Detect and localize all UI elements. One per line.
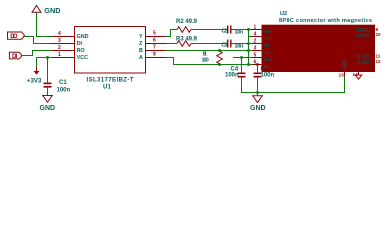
svg-text:12: 12 (376, 59, 382, 64)
wire Y to R2 (166, 30, 177, 37)
svg-text:13: 13 (339, 73, 345, 78)
wire R3 to C3 (191, 43, 227, 45)
capacitor C4 (225, 66, 246, 78)
capacitor C1 (44, 80, 71, 94)
capacitor C3 (222, 40, 244, 50)
node DO (flag label) (8, 32, 25, 40)
svg-text:100n: 100n (225, 72, 239, 78)
svg-text:RD+: RD+ (264, 50, 274, 55)
svg-text:11: 11 (376, 54, 381, 59)
pin 8 A (139, 52, 166, 62)
wire VCC rail (37, 57, 52, 59)
wire junction to C1 (47, 58, 49, 83)
svg-text:RO: RO (77, 48, 85, 54)
svg-text:100: 100 (202, 58, 209, 64)
wire C5 to rail (257, 77, 259, 92)
svg-text:TD+: TD+ (264, 29, 273, 34)
node C5 top junction (256, 63, 259, 66)
pin 4 GND (52, 31, 89, 40)
supply +3V3 (27, 67, 42, 85)
node DI (flag label) (9, 52, 22, 60)
svg-text:DI: DI (77, 41, 83, 47)
wire +3V3 stem (36, 58, 38, 67)
svg-text:R2 49.9: R2 49.9 (176, 19, 198, 25)
wire C5 top (257, 65, 259, 73)
svg-text:1: 1 (58, 52, 61, 58)
svg-text:14: 14 (353, 72, 359, 77)
svg-text:GND: GND (40, 105, 56, 112)
wire C1 to ground (47, 87, 49, 95)
pin 3 DI (52, 38, 83, 47)
svg-text:GND: GND (250, 105, 266, 112)
ground GND (top-left supply symbol) (32, 5, 61, 15)
svg-text:10n: 10n (235, 30, 244, 36)
svg-text:C1: C1 (59, 80, 67, 86)
svg-text:8P8C connector with magnetics: 8P8C connector with magnetics (279, 18, 372, 24)
node R1 bottom junction (218, 63, 221, 66)
node tie at pin6 rail (247, 63, 250, 66)
node rail junction (256, 91, 259, 94)
ground below C1 (40, 96, 56, 113)
pin 5 Y (139, 31, 166, 41)
resistor R1 100 (202, 51, 223, 65)
svg-text:100n: 100n (261, 72, 275, 78)
wire C2 to U2 pin 1 (232, 29, 253, 31)
svg-text:ISL3177EIBZ-T: ISL3177EIBZ-T (87, 76, 134, 83)
pin 2 RO (52, 45, 85, 54)
ground mini GND at U2 shield (355, 75, 361, 79)
wire C4 top lead (241, 58, 243, 73)
svg-text:5: 5 (254, 53, 257, 59)
pin 9 GRNC (356, 27, 379, 34)
svg-text:8: 8 (153, 52, 156, 58)
svg-text:RCT: RCT (264, 57, 274, 62)
wire A to U2 pin 6 rail (166, 58, 252, 65)
pin 13 SHLD (bottom) (339, 59, 349, 78)
svg-text:GND: GND (343, 59, 349, 71)
svg-text:Z: Z (139, 41, 143, 47)
capacitor C5 (254, 66, 275, 78)
svg-text:TCT: TCT (264, 36, 273, 41)
svg-text:VCC: VCC (77, 55, 88, 61)
svg-text:+3V3: +3V3 (27, 78, 42, 85)
pin 7 B (139, 45, 166, 55)
svg-text:GND: GND (44, 6, 60, 15)
svg-text:3: 3 (254, 46, 257, 52)
svg-text:C2: C2 (222, 29, 228, 35)
pin 5 RCT (252, 53, 273, 62)
pin 10 GRNA (356, 32, 382, 39)
svg-text:GND: GND (77, 34, 89, 40)
svg-text:Y: Y (139, 34, 143, 40)
svg-text:GRNA: GRNA (356, 33, 371, 39)
svg-text:100n: 100n (57, 88, 71, 94)
wire R2 to C2 (191, 29, 227, 31)
node VCC junction (46, 56, 49, 59)
svg-text:2: 2 (254, 39, 257, 45)
svg-text:1: 1 (254, 25, 257, 31)
svg-text:2: 2 (58, 45, 61, 51)
svg-text:A: A (139, 55, 143, 61)
svg-text:6: 6 (153, 38, 156, 44)
svg-text:5: 5 (153, 31, 156, 37)
svg-text:3: 3 (58, 38, 61, 44)
svg-text:DI: DI (12, 53, 17, 60)
node C4 top junction (240, 56, 243, 59)
node tie at pin1 row (247, 28, 250, 31)
node tie at pin3 row (247, 49, 250, 52)
wire B to U2 pin 3 (166, 50, 252, 52)
capacitor C2 (222, 26, 244, 36)
IC U1 ISL3177EIBZ-T (RS-485 transceiver) (75, 27, 146, 91)
wire tie to pin 4 (249, 36, 253, 38)
wire DI to U1 RO (22, 51, 51, 56)
svg-text:DO: DO (10, 33, 18, 40)
svg-text:4: 4 (254, 32, 257, 38)
pin 6 RD- (252, 60, 272, 69)
wire ground rail C4/C5 (242, 77, 345, 93)
wire Z to R3 (166, 43, 177, 45)
pin 3 RD+ (252, 46, 273, 55)
svg-text:10n: 10n (235, 44, 244, 50)
svg-text:7: 7 (153, 45, 156, 51)
pin 2 TD- (252, 39, 272, 48)
svg-text:R3 49.9: R3 49.9 (176, 36, 198, 42)
pin 4 TCT (252, 32, 273, 41)
wire DO to U1 DI (25, 37, 52, 44)
pin 14 shield GND (bottom) (353, 72, 359, 77)
svg-text:U2: U2 (280, 11, 287, 17)
svg-text:B: B (139, 48, 143, 54)
connector U2 8P8C with magnetics (262, 11, 375, 72)
svg-text:4: 4 (58, 31, 61, 37)
svg-text:C3: C3 (222, 43, 228, 49)
wire rail to GND (257, 93, 259, 96)
svg-text:6: 6 (254, 60, 257, 66)
svg-text:10: 10 (376, 32, 382, 37)
pin 1 TD+ (252, 25, 273, 34)
wire GND symbol to U1 pin 4 (37, 13, 52, 37)
wire U2 tie column (vertical) (248, 30, 250, 65)
svg-text:TD-: TD- (264, 43, 272, 48)
svg-text:R1: R1 (203, 52, 207, 58)
pin 12 YLWA (356, 59, 382, 66)
pin 11 YLWC (356, 54, 381, 61)
svg-text:RD-: RD- (264, 64, 273, 69)
pin 1 VCC (52, 52, 89, 61)
wire RCT row to U2 pin 5 (233, 57, 252, 59)
resistor R3 49.9 (176, 36, 198, 46)
svg-text:YLWA: YLWA (356, 60, 371, 66)
resistor R2 49.9 (176, 19, 198, 32)
node R1 top junction (218, 49, 221, 52)
ground mid GND (250, 96, 266, 112)
pin 6 Z (139, 38, 166, 48)
node junction vertical tie crossing (247, 42, 250, 45)
wire C3 to U2 pin 2 (232, 43, 253, 45)
svg-text:U1: U1 (103, 83, 111, 90)
